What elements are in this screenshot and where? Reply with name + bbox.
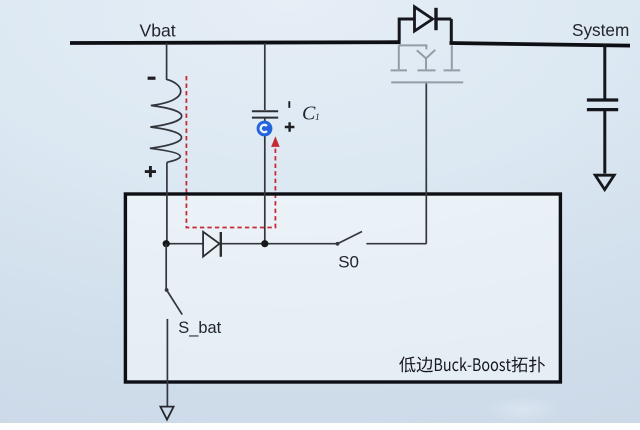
svg-text:S_bat: S_bat xyxy=(178,319,221,337)
ground (system) xyxy=(595,175,614,189)
switch S_bat xyxy=(165,288,169,292)
diode D1 cathode bar xyxy=(434,8,437,30)
svg-text:S0: S0 xyxy=(338,253,359,272)
diode D2 xyxy=(203,232,219,257)
wire: node A down to S_bat xyxy=(165,244,167,290)
wire: inductor to node A xyxy=(166,162,168,243)
current path arrowhead xyxy=(271,136,280,147)
svg-text:1: 1 xyxy=(315,113,320,123)
label 低边Buck-Boost拓扑 xyxy=(399,357,545,373)
node A (junction dot) xyxy=(163,240,170,247)
wire: S_bat to ground xyxy=(166,319,168,406)
topology box fill xyxy=(125,194,560,382)
svg-text:C: C xyxy=(302,102,316,124)
wire: Vbat rail down to inductor xyxy=(166,43,168,80)
wire: S0 to Q1 gate line xyxy=(366,243,426,245)
label - (inductor polarity) xyxy=(148,77,156,80)
switch S0 xyxy=(336,242,340,246)
label + (inductor polarity) xyxy=(145,166,156,177)
wire: Vbat rail down to C1 xyxy=(264,43,266,110)
current path loop (red dashed) xyxy=(186,76,275,228)
topology box border xyxy=(125,194,560,382)
capacitor C2 plates xyxy=(587,100,618,110)
svg-text:System: System xyxy=(572,20,629,40)
wire: System rail (right segment) xyxy=(450,43,631,46)
inductor L1 xyxy=(150,80,182,163)
diode D1 (body diode) xyxy=(415,7,433,31)
wire: Q1 gate to S0 xyxy=(425,84,427,244)
node B (junction dot) xyxy=(261,240,268,247)
wire: C2 to ground xyxy=(603,111,606,174)
marker: blue C badge xyxy=(257,121,273,137)
wire: diode branch risers xyxy=(399,19,451,42)
wire: System rail down to C2 xyxy=(603,44,606,99)
diode D2 cathode bar xyxy=(220,232,222,257)
transistor Q1 (MOSFET, gray) xyxy=(391,45,464,82)
svg-text:Vbat: Vbat xyxy=(140,20,176,40)
wire: node A to diode D2 anode xyxy=(166,243,203,245)
label I (current tick) xyxy=(288,101,290,108)
wire: Vbat rail (left segment) xyxy=(70,40,401,45)
wire: diode D2 cathode to S0 xyxy=(222,243,337,245)
capacitor C1 plates xyxy=(252,111,278,117)
wire: C1 down to node B xyxy=(264,118,266,244)
ground (battery leg) xyxy=(160,407,173,420)
label + (C1 polarity) xyxy=(285,122,295,132)
